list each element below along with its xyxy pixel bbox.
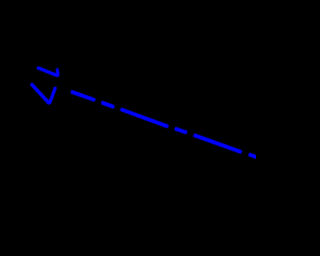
arrowhead stroke lower V [31, 84, 50, 104]
wire dash 2 [102, 102, 115, 107]
wire dash 3 [121, 109, 169, 126]
arrowhead stroke lower V right arm [50, 87, 56, 104]
wire dash 5 [194, 135, 242, 152]
wire dash 4 [175, 129, 187, 133]
arrowhead stroke upper check long arm [37, 68, 58, 77]
arrowhead stroke upper check short arm [57, 68, 58, 76]
wire dash 6 [249, 154, 258, 157]
wire dash 1 [71, 92, 95, 101]
